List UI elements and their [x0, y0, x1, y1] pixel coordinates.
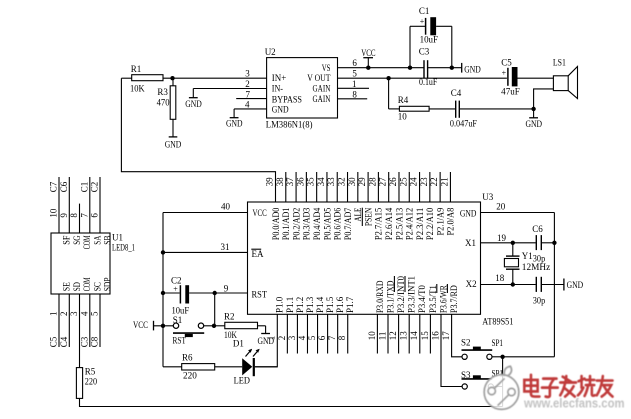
svg-text:C3: C3 — [79, 336, 89, 347]
svg-text:VCC: VCC — [253, 208, 267, 218]
svg-text:COM: COM — [82, 236, 92, 250]
svg-text:P1.6: P1.6 — [335, 296, 345, 313]
svg-text:35: 35 — [306, 177, 316, 187]
svg-text:R6: R6 — [182, 353, 193, 363]
svg-text:12: 12 — [388, 331, 398, 340]
svg-text:U2: U2 — [265, 47, 276, 57]
svg-text:34: 34 — [316, 177, 326, 187]
svg-text:ALE: ALE — [353, 207, 363, 221]
svg-text:P1.5: P1.5 — [325, 296, 335, 313]
svg-text:9: 9 — [59, 213, 69, 218]
svg-text:19: 19 — [497, 233, 507, 243]
svg-text:6: 6 — [90, 213, 100, 218]
svg-text:6: 6 — [317, 335, 327, 340]
svg-text:21: 21 — [439, 177, 449, 186]
svg-text:39: 39 — [265, 177, 275, 187]
svg-text:S2: S2 — [461, 338, 471, 348]
svg-text:37: 37 — [285, 177, 295, 187]
svg-text:3: 3 — [287, 335, 297, 340]
svg-text:P0.6/AD6: P0.6/AD6 — [333, 207, 343, 240]
svg-text:2: 2 — [277, 336, 287, 341]
svg-text:SC: SC — [92, 282, 102, 291]
svg-text:EA: EA — [252, 249, 264, 259]
svg-text:P0.1/AD1: P0.1/AD1 — [281, 208, 291, 240]
svg-text:23: 23 — [419, 177, 429, 187]
svg-text:5: 5 — [307, 335, 317, 340]
svg-text:2: 2 — [59, 312, 69, 317]
svg-text:GND: GND — [185, 99, 202, 109]
svg-text:30: 30 — [347, 177, 357, 187]
svg-text:GND: GND — [272, 105, 289, 115]
svg-text:GND: GND — [567, 280, 584, 290]
svg-text:LM386N1(8): LM386N1(8) — [266, 120, 313, 130]
svg-text:10K: 10K — [130, 84, 145, 94]
svg-text:8: 8 — [337, 335, 347, 340]
svg-text:U1: U1 — [112, 232, 123, 242]
svg-text:P0.2/AD2: P0.2/AD2 — [291, 208, 301, 240]
svg-text:32: 32 — [337, 177, 347, 186]
svg-text:C8: C8 — [90, 336, 100, 347]
svg-text:8: 8 — [69, 213, 79, 218]
svg-text:BYPASS: BYPASS — [272, 95, 302, 105]
svg-text:P1.7: P1.7 — [345, 296, 355, 313]
svg-text:13: 13 — [399, 331, 409, 341]
svg-text:P2.1/A9: P2.1/A9 — [435, 207, 445, 235]
svg-text:10uF: 10uF — [420, 35, 438, 45]
svg-text:Y1: Y1 — [522, 251, 533, 261]
svg-text:R3: R3 — [157, 87, 168, 97]
svg-text:GND: GND — [526, 119, 543, 129]
svg-text:36: 36 — [295, 177, 305, 187]
svg-text:7: 7 — [327, 335, 337, 340]
svg-text:18: 18 — [495, 273, 505, 283]
svg-text:VCC: VCC — [133, 320, 148, 330]
svg-text:C6: C6 — [532, 224, 543, 234]
svg-text:IN+: IN+ — [272, 73, 287, 83]
svg-text:28: 28 — [367, 177, 377, 187]
svg-text:P3.0/RXD: P3.0/RXD — [375, 280, 385, 313]
svg-text:5: 5 — [90, 311, 100, 316]
svg-text:22: 22 — [429, 177, 439, 186]
svg-text:29: 29 — [357, 177, 367, 187]
svg-text:4: 4 — [297, 335, 307, 340]
svg-text:1: 1 — [352, 79, 357, 89]
svg-text:P1.3: P1.3 — [305, 296, 315, 313]
svg-text:www.elecfans.com: www.elecfans.com — [523, 396, 624, 411]
svg-text:SP1: SP1 — [492, 338, 504, 348]
svg-text:10: 10 — [398, 112, 408, 122]
svg-text:P0.0/AD0: P0.0/AD0 — [271, 207, 281, 240]
svg-text:U3: U3 — [482, 192, 493, 202]
svg-text:P1.1: P1.1 — [285, 297, 295, 313]
svg-text:SF: SF — [62, 236, 72, 245]
svg-text:RST: RST — [252, 290, 268, 300]
svg-text:2: 2 — [245, 79, 250, 89]
svg-text:P2.4/A12: P2.4/A12 — [405, 208, 415, 240]
svg-text:GND: GND — [226, 119, 243, 129]
svg-text:1: 1 — [49, 312, 59, 317]
svg-text:10uF: 10uF — [172, 306, 190, 316]
svg-text:26: 26 — [388, 177, 398, 187]
svg-text:0.1uF: 0.1uF — [419, 77, 437, 87]
svg-text:4: 4 — [79, 311, 89, 316]
svg-text:GND: GND — [464, 64, 481, 74]
svg-text:VCC: VCC — [361, 48, 375, 58]
svg-text:X2: X2 — [466, 279, 477, 289]
svg-text:8: 8 — [352, 89, 357, 99]
svg-text:SDP: SDP — [103, 278, 113, 292]
svg-text:0.047uF: 0.047uF — [450, 118, 477, 128]
svg-text:7: 7 — [246, 89, 251, 99]
svg-text:P2.0/A8: P2.0/A8 — [446, 207, 456, 235]
svg-text:SG: SG — [72, 235, 82, 245]
svg-text:40: 40 — [221, 202, 231, 212]
svg-text:LED8_1: LED8_1 — [112, 243, 135, 253]
svg-text:S1: S1 — [173, 315, 183, 325]
svg-text:P0.4/AD4: P0.4/AD4 — [312, 207, 322, 240]
svg-text:4: 4 — [245, 99, 250, 109]
svg-text:C7: C7 — [49, 181, 59, 192]
svg-text:C1: C1 — [419, 6, 430, 16]
svg-text:GND: GND — [258, 336, 275, 346]
svg-text:C3: C3 — [419, 47, 430, 57]
svg-text:GAIN: GAIN — [313, 94, 331, 104]
svg-text:PSEN: PSEN — [363, 207, 373, 226]
svg-text:10: 10 — [367, 331, 377, 341]
svg-text:10: 10 — [49, 208, 59, 218]
svg-text:30p: 30p — [533, 295, 546, 305]
svg-text:SE: SE — [62, 282, 72, 292]
svg-text:C5: C5 — [49, 336, 59, 347]
svg-text:AT89S51: AT89S51 — [482, 316, 513, 326]
svg-text:C4: C4 — [451, 88, 462, 98]
svg-text:3: 3 — [69, 311, 79, 316]
svg-text:6: 6 — [352, 58, 357, 68]
svg-text:C1: C1 — [79, 182, 89, 193]
svg-text:LED: LED — [234, 376, 251, 386]
svg-text:IN-: IN- — [272, 83, 283, 93]
svg-text:11: 11 — [377, 332, 387, 341]
svg-text:24: 24 — [409, 177, 419, 187]
svg-text:P3.7/RD: P3.7/RD — [449, 285, 459, 313]
svg-text:P0.3/AD3: P0.3/AD3 — [302, 207, 312, 240]
svg-text:R2: R2 — [224, 312, 235, 322]
svg-text:27: 27 — [378, 177, 388, 187]
svg-text:V OUT: V OUT — [307, 73, 331, 83]
svg-text:P0.7/AD7: P0.7/AD7 — [343, 207, 353, 240]
svg-text:GND: GND — [165, 139, 182, 149]
svg-text:25: 25 — [398, 177, 408, 187]
svg-text:+: + — [502, 68, 507, 77]
svg-text:3: 3 — [245, 69, 250, 79]
svg-text:GAIN: GAIN — [313, 84, 331, 94]
svg-text:P2.6/A14: P2.6/A14 — [384, 207, 394, 240]
svg-text:220: 220 — [85, 376, 98, 386]
svg-text:COM: COM — [82, 278, 92, 292]
svg-text:470: 470 — [157, 97, 170, 107]
svg-text:P2.3/A11: P2.3/A11 — [415, 208, 425, 240]
svg-text:SA: SA — [92, 235, 102, 245]
svg-text:P1.4: P1.4 — [315, 296, 325, 313]
svg-text:LS1: LS1 — [553, 57, 566, 67]
svg-text:38: 38 — [275, 177, 285, 187]
svg-text:P2.7/A15: P2.7/A15 — [374, 207, 384, 240]
svg-text:P1.2: P1.2 — [295, 297, 305, 313]
svg-text:+: + — [420, 17, 425, 26]
svg-text:220: 220 — [183, 370, 197, 380]
svg-text:D1: D1 — [233, 338, 244, 348]
svg-text:P2.5/A13: P2.5/A13 — [394, 207, 404, 240]
svg-text:SD: SD — [72, 282, 82, 292]
svg-text:C5: C5 — [501, 57, 512, 67]
svg-text:7: 7 — [79, 213, 89, 218]
svg-text:31: 31 — [221, 242, 230, 252]
svg-text:20: 20 — [496, 201, 506, 211]
svg-text:S3: S3 — [461, 370, 471, 380]
svg-text:47uF: 47uF — [501, 87, 520, 97]
svg-text:P2.2/A10: P2.2/A10 — [425, 207, 435, 240]
svg-text:15: 15 — [420, 331, 430, 341]
svg-text:R1: R1 — [131, 64, 142, 74]
svg-text:C4: C4 — [59, 336, 69, 347]
svg-text:+: + — [173, 285, 178, 294]
svg-text:X1: X1 — [465, 238, 476, 248]
svg-text:33: 33 — [326, 177, 336, 187]
svg-text:R4: R4 — [398, 95, 409, 105]
svg-text:17: 17 — [441, 331, 451, 341]
svg-text:VS: VS — [322, 63, 331, 73]
svg-text:C2: C2 — [90, 182, 100, 193]
svg-text:P1.0: P1.0 — [275, 296, 285, 313]
svg-text:RST: RST — [173, 336, 187, 346]
svg-text:R5: R5 — [85, 366, 96, 376]
svg-text:C6: C6 — [59, 181, 69, 192]
svg-text:5: 5 — [352, 68, 357, 78]
svg-text:SB: SB — [103, 236, 113, 245]
svg-text:9: 9 — [224, 284, 229, 294]
svg-text:P0.5/AD5: P0.5/AD5 — [322, 207, 332, 240]
svg-text:16: 16 — [430, 331, 440, 341]
svg-text:12MHz: 12MHz — [522, 262, 550, 272]
svg-text:14: 14 — [409, 331, 419, 341]
svg-text:GND: GND — [460, 208, 477, 218]
svg-text:P3.4/T0: P3.4/T0 — [417, 285, 427, 313]
svg-text:P3.3/INT1: P3.3/INT1 — [407, 276, 417, 313]
